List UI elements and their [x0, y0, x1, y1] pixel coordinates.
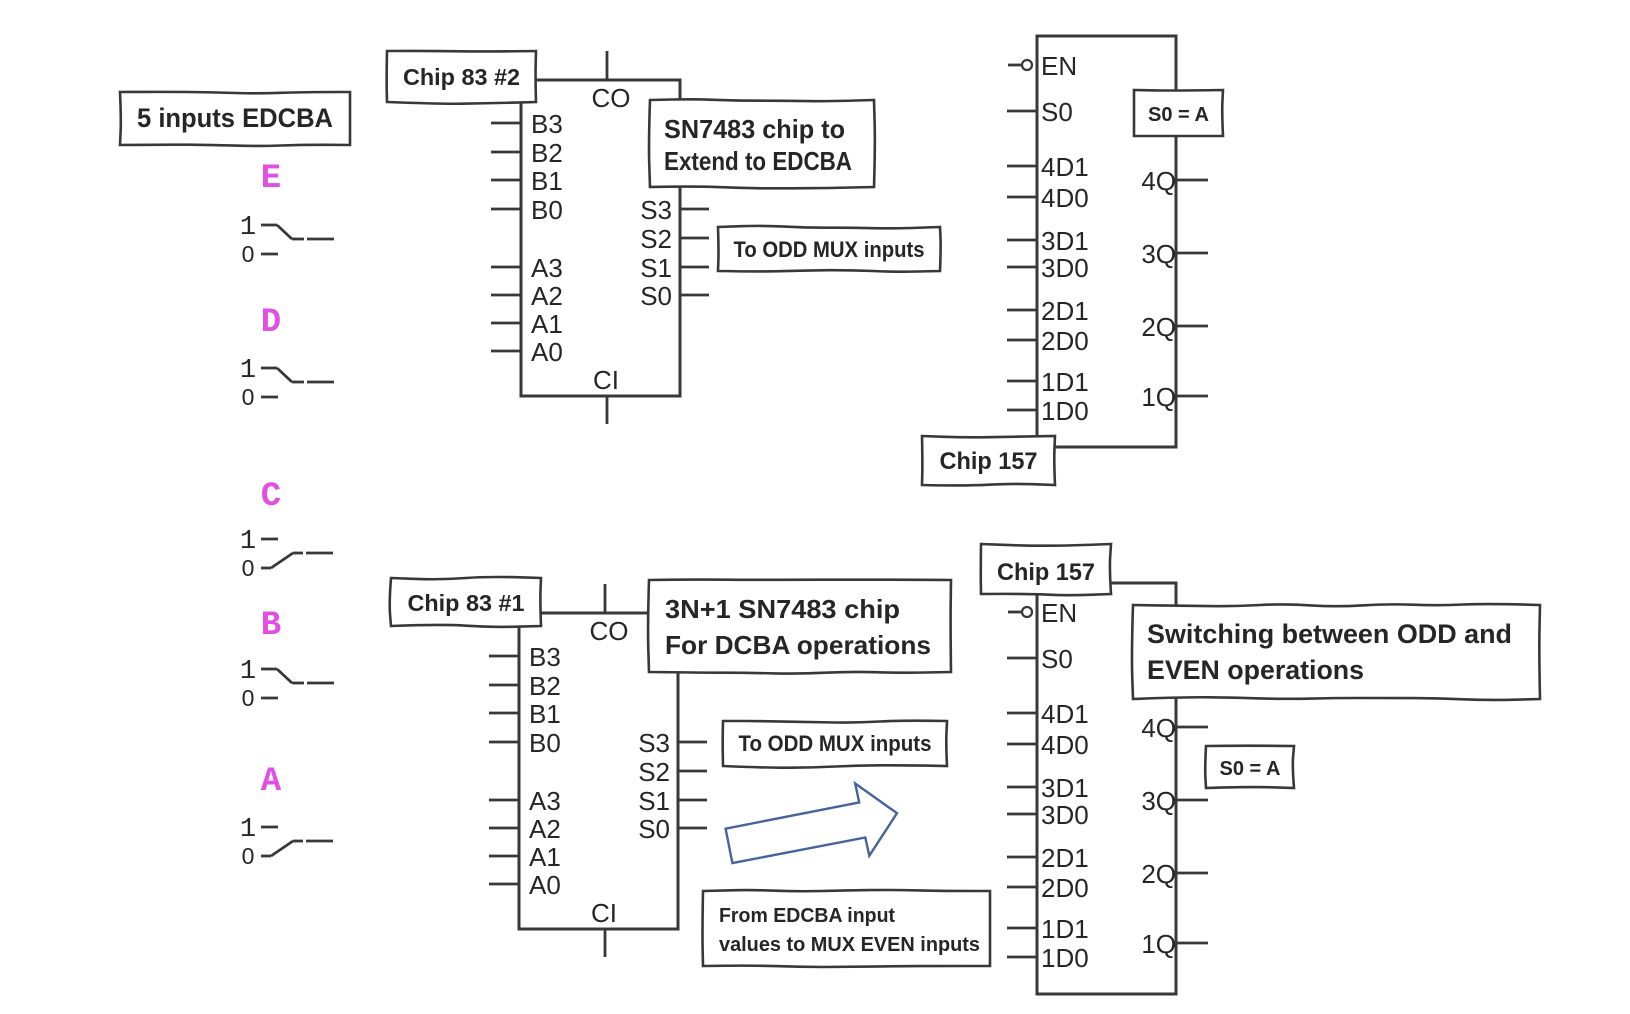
value box "S0 = A" (lower)	[1205, 746, 1294, 788]
U1 (Chip 83 #2) pin B3	[491, 109, 563, 139]
svg-text:A0: A0	[531, 337, 563, 367]
U1 (Chip 83 #2) pin A3	[491, 253, 563, 283]
label box "Chip 83 #1"	[390, 577, 541, 627]
svg-text:S1: S1	[638, 786, 670, 816]
svg-text:2Q: 2Q	[1141, 312, 1176, 342]
U4 (Chip 157 lower) pin 3Q	[1141, 786, 1208, 816]
switch E (set to 1)	[240, 213, 334, 267]
U4 (Chip 157 lower) pin 1Q	[1141, 929, 1208, 959]
U1 (Chip 83 #2) CI pin stub	[593, 365, 619, 424]
U3 (Chip 157 upper) pin 2Q	[1141, 312, 1208, 342]
svg-text:EVEN operations: EVEN operations	[1147, 655, 1364, 685]
svg-text:C: C	[261, 478, 281, 516]
svg-text:2D1: 2D1	[1041, 843, 1089, 873]
svg-text:2D0: 2D0	[1041, 873, 1089, 903]
svg-text:1: 1	[240, 356, 256, 386]
svg-text:1: 1	[240, 657, 256, 687]
svg-text:S0: S0	[1041, 644, 1073, 674]
svg-text:S3: S3	[638, 728, 670, 758]
callout "3N+1 SN7483 chip For DCBA operations"	[648, 580, 951, 674]
svg-text:1D1: 1D1	[1041, 914, 1089, 944]
U2 (Chip 83 #1) pin B3	[489, 642, 561, 672]
svg-text:SN7483 chip to: SN7483 chip to	[664, 114, 845, 144]
U3 (Chip 157 upper) pin 4D0	[1007, 183, 1089, 213]
callout "To ODD MUX inputs" (upper)	[718, 226, 941, 272]
svg-text:A2: A2	[529, 814, 561, 844]
U4 (Chip 157 lower) pin 2D1	[1007, 843, 1089, 873]
svg-text:5 inputs EDCBA: 5 inputs EDCBA	[137, 103, 333, 133]
svg-text:A1: A1	[531, 309, 563, 339]
svg-text:4Q: 4Q	[1141, 713, 1176, 743]
U2 (Chip 83 #1) pin A3	[489, 786, 561, 816]
U1 (Chip 83 #2) pin A2	[491, 281, 563, 311]
U3 (Chip 157 upper) pin 2D0	[1007, 326, 1089, 356]
switch C (set to 0)	[240, 527, 333, 581]
svg-text:To ODD MUX inputs: To ODD MUX inputs	[734, 237, 925, 262]
svg-text:From EDCBA input: From EDCBA input	[719, 905, 895, 927]
mux chip U4 (Chip 157 lower) body	[1037, 583, 1176, 994]
U2 (Chip 83 #1) pin S0	[638, 814, 707, 844]
U3 (Chip 157 upper) pin 1D0	[1007, 396, 1089, 426]
svg-text:1: 1	[240, 213, 256, 243]
mux chip U3 (Chip 157 upper) body	[1037, 36, 1176, 447]
switch B (set to 1)	[240, 657, 334, 711]
U2 (Chip 83 #1) CO pin stub	[590, 584, 629, 646]
value box "S0 = A" (upper)	[1134, 90, 1223, 136]
svg-text:3D1: 3D1	[1041, 226, 1089, 256]
U4 (Chip 157 lower) pin 1D1	[1007, 914, 1089, 944]
U4 (Chip 157 lower) pin 1D0	[1007, 943, 1089, 973]
svg-text:A: A	[261, 763, 282, 801]
U3 (Chip 157 upper) pin 3D0	[1007, 253, 1089, 283]
U4 (Chip 157 lower) pin 4Q	[1141, 713, 1208, 743]
svg-text:4Q: 4Q	[1141, 166, 1176, 196]
svg-text:A2: A2	[531, 281, 563, 311]
svg-text:To ODD MUX inputs: To ODD MUX inputs	[739, 731, 932, 756]
U3 (Chip 157 upper) pin 3D1	[1007, 226, 1089, 256]
U1 (Chip 83 #2) pin S0	[640, 281, 709, 311]
svg-text:D: D	[261, 304, 281, 342]
svg-text:CI: CI	[593, 365, 619, 395]
U1 (Chip 83 #2) pin B2	[491, 138, 563, 168]
svg-text:CO: CO	[590, 616, 629, 646]
U3 (Chip 157 upper) pin 3Q	[1141, 239, 1208, 269]
U1 (Chip 83 #2) CO pin stub	[592, 51, 631, 113]
svg-text:S3: S3	[640, 195, 672, 225]
svg-text:4D0: 4D0	[1041, 730, 1089, 760]
label box "Chip 83 #2"	[387, 51, 536, 104]
svg-text:A0: A0	[529, 870, 561, 900]
U3 (Chip 157 upper) pin 4D1	[1007, 152, 1089, 182]
U1 (Chip 83 #2) pin A0	[491, 337, 563, 367]
callout "From EDCBA input values to MUX EVEN inputs"	[703, 890, 990, 967]
svg-text:B: B	[261, 607, 281, 645]
U3 (Chip 157 upper) pin 1Q	[1141, 382, 1208, 412]
U4 (Chip 157 lower) pin 4D0	[1007, 730, 1089, 760]
svg-text:B1: B1	[531, 166, 563, 196]
svg-text:S0 = A: S0 = A	[1220, 758, 1281, 780]
svg-text:3Q: 3Q	[1141, 786, 1176, 816]
svg-text:0: 0	[242, 555, 255, 581]
svg-text:EN: EN	[1041, 51, 1077, 81]
U4 (Chip 157 lower) pin 2Q	[1141, 859, 1208, 889]
svg-text:E: E	[261, 160, 281, 198]
svg-text:Chip 83 #2: Chip 83 #2	[403, 64, 520, 90]
svg-text:2D1: 2D1	[1041, 296, 1089, 326]
label box "Chip 157" (upper)	[922, 436, 1055, 485]
svg-text:1: 1	[240, 527, 256, 557]
U2 (Chip 83 #1) pin A0	[489, 870, 561, 900]
svg-text:A1: A1	[529, 842, 561, 872]
callout "Switching between ODD and EVEN operations"	[1132, 604, 1540, 700]
U2 (Chip 83 #1) pin B0	[489, 728, 561, 758]
svg-text:B0: B0	[531, 195, 563, 225]
U4 (Chip 157 lower) pin 3D1	[1007, 773, 1089, 803]
svg-text:values to MUX EVEN inputs: values to MUX EVEN inputs	[719, 934, 980, 956]
svg-text:4D0: 4D0	[1041, 183, 1089, 213]
svg-text:1D0: 1D0	[1041, 396, 1089, 426]
svg-text:CO: CO	[592, 83, 631, 113]
U3 (Chip 157 upper) pin 2D1	[1007, 296, 1089, 326]
svg-text:S2: S2	[638, 757, 670, 787]
svg-text:B2: B2	[529, 671, 561, 701]
U1 (Chip 83 #2) pin A1	[491, 309, 563, 339]
svg-text:3D0: 3D0	[1041, 253, 1089, 283]
U1 (Chip 83 #2) pin S2	[640, 224, 709, 254]
blue block arrow (EDCBA values to MUX EVEN inputs)	[726, 784, 897, 864]
svg-text:Switching between ODD and: Switching between ODD and	[1147, 619, 1512, 649]
U4 (Chip 157 lower) pin EN (active-low bubble)	[1008, 598, 1077, 628]
svg-text:2D0: 2D0	[1041, 326, 1089, 356]
svg-text:Extend to EDCBA: Extend to EDCBA	[664, 146, 852, 176]
svg-text:1: 1	[240, 815, 256, 845]
U2 (Chip 83 #1) CI pin stub	[591, 898, 617, 957]
callout "5 inputs EDCBA"	[120, 92, 350, 146]
svg-text:4D1: 4D1	[1041, 699, 1089, 729]
svg-text:Chip 157: Chip 157	[940, 448, 1038, 475]
svg-text:3D0: 3D0	[1041, 800, 1089, 830]
svg-text:B2: B2	[531, 138, 563, 168]
U2 (Chip 83 #1) pin A2	[489, 814, 561, 844]
U2 (Chip 83 #1) pin B2	[489, 671, 561, 701]
svg-text:2Q: 2Q	[1141, 859, 1176, 889]
svg-text:3N+1 SN7483 chip: 3N+1 SN7483 chip	[665, 594, 900, 624]
svg-text:S1: S1	[640, 253, 672, 283]
label box "Chip 157" (lower)	[981, 544, 1111, 595]
svg-text:Chip 157: Chip 157	[997, 559, 1095, 586]
U4 (Chip 157 lower) pin 4D1	[1007, 699, 1089, 729]
svg-text:4D1: 4D1	[1041, 152, 1089, 182]
U4 (Chip 157 lower) pin 2D0	[1007, 873, 1089, 903]
svg-text:3D1: 3D1	[1041, 773, 1089, 803]
U3 (Chip 157 upper) pin 1D1	[1007, 367, 1089, 397]
svg-text:A3: A3	[531, 253, 563, 283]
U3 (Chip 157 upper) pin S0	[1007, 97, 1073, 127]
svg-text:EN: EN	[1041, 598, 1077, 628]
svg-text:S2: S2	[640, 224, 672, 254]
svg-text:1D1: 1D1	[1041, 367, 1089, 397]
switch D (set to 1)	[240, 356, 334, 410]
callout "To ODD MUX inputs" (lower)	[723, 721, 947, 768]
callout "SN7483 chip to Extend to EDCBA"	[649, 99, 875, 188]
adder chip U2 (Chip 83 #1) body	[519, 613, 678, 929]
svg-text:S0: S0	[640, 281, 672, 311]
U3 (Chip 157 upper) pin 4Q	[1141, 166, 1208, 196]
U4 (Chip 157 lower) pin 3D0	[1007, 800, 1089, 830]
svg-text:S0 = A: S0 = A	[1148, 104, 1209, 126]
U2 (Chip 83 #1) pin S1	[638, 786, 707, 816]
U2 (Chip 83 #1) pin S3	[638, 728, 707, 758]
svg-text:0: 0	[242, 843, 255, 869]
svg-text:B3: B3	[531, 109, 563, 139]
svg-text:A3: A3	[529, 786, 561, 816]
svg-text:1Q: 1Q	[1141, 929, 1176, 959]
U2 (Chip 83 #1) pin B1	[489, 699, 561, 729]
adder chip U1 (Chip 83 #2) body	[521, 80, 680, 396]
svg-text:S0: S0	[1041, 97, 1073, 127]
svg-text:3Q: 3Q	[1141, 239, 1176, 269]
svg-text:S0: S0	[638, 814, 670, 844]
U4 (Chip 157 lower) pin S0	[1007, 644, 1073, 674]
U1 (Chip 83 #2) pin B1	[491, 166, 563, 196]
svg-text:CI: CI	[591, 898, 617, 928]
U2 (Chip 83 #1) pin S2	[638, 757, 707, 787]
svg-text:B1: B1	[529, 699, 561, 729]
svg-text:B3: B3	[529, 642, 561, 672]
U1 (Chip 83 #2) pin S3	[640, 195, 709, 225]
U3 (Chip 157 upper) pin EN (active-low bubble)	[1008, 51, 1077, 81]
svg-text:Chip 83 #1: Chip 83 #1	[408, 590, 525, 616]
svg-text:0: 0	[242, 384, 255, 410]
U1 (Chip 83 #2) pin B0	[491, 195, 563, 225]
U2 (Chip 83 #1) pin A1	[489, 842, 561, 872]
svg-text:B0: B0	[529, 728, 561, 758]
svg-text:0: 0	[242, 685, 255, 711]
svg-text:For DCBA operations: For DCBA operations	[665, 630, 931, 660]
svg-text:0: 0	[242, 241, 255, 267]
svg-text:1Q: 1Q	[1141, 382, 1176, 412]
switch A (set to 0)	[240, 815, 333, 869]
svg-text:1D0: 1D0	[1041, 943, 1089, 973]
U1 (Chip 83 #2) pin S1	[640, 253, 709, 283]
